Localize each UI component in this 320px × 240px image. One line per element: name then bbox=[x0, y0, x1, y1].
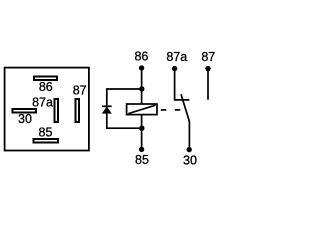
relay socket outline box bbox=[5, 68, 89, 151]
label terminal 30 bbox=[183, 153, 197, 167]
label terminal 85 bbox=[135, 153, 149, 167]
label 86 (socket) bbox=[39, 80, 53, 94]
svg-text:30: 30 bbox=[18, 112, 32, 126]
svg-text:86: 86 bbox=[134, 50, 148, 64]
label 30 (socket) bbox=[18, 112, 32, 126]
terminal dot 87a bbox=[172, 66, 177, 71]
terminal dot 86 bbox=[139, 65, 144, 70]
wire 87 contact (NO) bbox=[207, 69, 209, 100]
pin slot 85 (bottom horizontal blade) bbox=[34, 139, 59, 143]
svg-text:86: 86 bbox=[39, 80, 53, 94]
svg-text:87a: 87a bbox=[166, 50, 187, 64]
label 85 (socket) bbox=[39, 126, 53, 140]
actuator dashed link bbox=[161, 109, 181, 111]
switch armature from 30 bbox=[181, 94, 189, 149]
label 87 (socket) bbox=[73, 83, 87, 97]
label terminal 87 bbox=[201, 50, 215, 64]
pin slot 87a (center vertical blade) bbox=[55, 99, 59, 122]
label terminal 86 bbox=[134, 50, 148, 64]
svg-text:85: 85 bbox=[135, 153, 149, 167]
relay coil K1 body bbox=[127, 104, 157, 115]
svg-text:85: 85 bbox=[39, 126, 53, 140]
terminal dot 87 bbox=[205, 66, 210, 71]
diode V1 cathode bar bbox=[102, 105, 112, 107]
pin slot 86 (top horizontal blade) bbox=[34, 77, 57, 81]
diode branch wire (left loop) bbox=[107, 89, 142, 128]
label 87a (socket) bbox=[32, 95, 53, 109]
junction node bottom bbox=[139, 126, 144, 131]
terminal dot 85 bbox=[139, 147, 144, 152]
svg-text:87: 87 bbox=[201, 50, 215, 64]
wire coil to 85 bbox=[141, 115, 143, 150]
pin slot 87 (right vertical blade) bbox=[76, 99, 80, 122]
pin slot 30 (left horizontal blade) bbox=[13, 109, 37, 113]
label terminal 87a bbox=[166, 50, 187, 64]
svg-text:87a: 87a bbox=[32, 95, 53, 109]
diode V1 triangle bbox=[102, 107, 111, 113]
terminal dot 30 bbox=[187, 147, 192, 152]
wire 86 to coil bbox=[141, 68, 143, 105]
junction node top bbox=[139, 86, 144, 91]
svg-text:87: 87 bbox=[73, 83, 87, 97]
wire 87a contact (NC) bbox=[175, 69, 190, 100]
svg-text:30: 30 bbox=[183, 153, 197, 167]
